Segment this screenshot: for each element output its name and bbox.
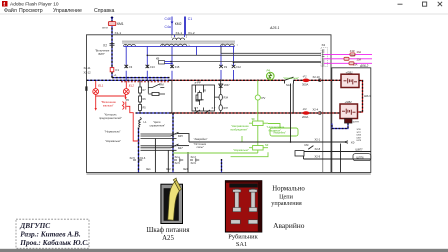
bracket wires [155, 134, 189, 173]
svg-text:F1: F1 [116, 68, 120, 72]
svg-text:Ш6П7: Ш6П7 [356, 147, 364, 151]
svg-text:Зм1: Зм1 [146, 168, 151, 171]
svg-text:А25: А25 [162, 235, 174, 242]
svg-text:PV: PV [262, 96, 266, 100]
svg-text:Рубильник: Рубильник [228, 234, 258, 241]
bottom gray bar [0, 249, 448, 252]
svg-text:SF: SF [252, 117, 256, 121]
svg-text:F13: F13 [150, 65, 155, 69]
fuse F1 on bus1 [303, 79, 310, 83]
svg-text:Пров.: Кабалык Ю.С.: Пров.: Кабалык Ю.С. [19, 238, 89, 247]
svg-text:Х2-8: Х2-8 [315, 147, 321, 151]
magenta output wires [324, 54, 372, 63]
svg-text:Б47: Б47 [178, 146, 183, 150]
green switch SF1 [249, 121, 268, 126]
RR relay box [192, 85, 221, 111]
bottom connector pins [133, 158, 199, 162]
bus1 dark red dashed right [170, 79, 285, 81]
fuse-link symbols row [124, 65, 235, 68]
inner partition line near connector [322, 50, 324, 173]
svg-text:SA1: SA1 [236, 241, 247, 248]
svg-text:А25.1: А25.1 [269, 26, 279, 30]
svg-text:Х2-5: Х2-5 [130, 157, 136, 160]
primary winding [174, 35, 176, 37]
KM dashed blue feed at left [102, 17, 170, 78]
svg-text:"Нормально": "Нормально" [283, 76, 299, 80]
red link with arrows [96, 94, 126, 108]
svg-text:Х2-а: Х2-а [175, 156, 181, 159]
fuse KM1 [108, 22, 115, 26]
svg-text:Б45: Б45 [178, 134, 183, 138]
short blue dashed pin drop [221, 159, 223, 173]
svg-text:С1: С1 [188, 17, 192, 21]
rubilnik icon [225, 181, 261, 232]
svg-text:"Цепи: "Цепи [153, 120, 161, 124]
svg-text:Х1-2: Х1-2 [188, 31, 195, 35]
svg-text:Х2-6: Х2-6 [140, 157, 146, 160]
secondary winding group1 [124, 44, 136, 46]
svg-text:С4а: С4а [165, 25, 171, 29]
bottom-right wires [189, 141, 371, 173]
contact stack B47 [141, 144, 179, 150]
svg-text:КМ: КМ [160, 83, 165, 87]
svg-text:"Нормально": "Нормально" [233, 148, 249, 152]
svg-text:EL2: EL2 [129, 84, 135, 88]
svg-text:L1: L1 [144, 120, 147, 124]
svg-text:Х0: Х0 [351, 140, 355, 144]
svg-text:КМ2: КМ2 [175, 22, 182, 26]
svg-text:предохранителей": предохранителей" [99, 116, 122, 120]
black vertical bus1-bus2 [171, 80, 173, 113]
red wire going down right [126, 106, 139, 141]
middle resistor column [139, 87, 142, 111]
SA1 knife switch on bus1 [285, 77, 294, 83]
svg-text:Шкаф питания: Шкаф питания [147, 227, 190, 234]
svg-text:Х2-9: Х2-9 [191, 162, 197, 165]
wire C1 blue feed above box [185, 17, 192, 35]
svg-text:Файл: Файл [4, 7, 17, 14]
svg-text:23А: 23А [357, 51, 362, 54]
svg-text:23А: 23А [351, 54, 356, 57]
svg-text:-F1: -F1 [303, 74, 308, 78]
svg-text:Х1: Х1 [102, 43, 107, 47]
svg-text:23А: 23А [353, 64, 358, 67]
svg-text:КВ: КВ [156, 57, 160, 61]
svg-text:Х1-1: Х1-1 [176, 31, 183, 35]
connector X2 dashed block [321, 48, 328, 67]
blue tap rail under windings [124, 46, 235, 80]
svg-text:Аварийно: Аварийно [273, 221, 305, 230]
connector block on left edge [85, 86, 87, 90]
svg-text:Зм2: Зм2 [166, 168, 171, 171]
close button [438, 2, 442, 6]
svg-text:200А: 200А [302, 115, 308, 119]
svg-text:ВИП": ВИП" [99, 52, 105, 56]
svg-text:Х2-4: Х2-4 [313, 108, 319, 112]
bottom shadow line [87, 173, 371, 175]
svg-text:"Аварийно": "Аварийно" [273, 131, 287, 135]
svg-text:"Нормально": "Нормально" [105, 130, 121, 134]
transformer T1 [122, 35, 239, 47]
svg-text:управления": управления" [150, 124, 166, 128]
svg-text:Зм3: Зм3 [183, 168, 188, 171]
svg-text:Управление: Управление [53, 8, 82, 14]
svg-text:Adobe Flash Player 10: Adobe Flash Player 10 [10, 1, 59, 7]
blue dashed hook from shunt [332, 123, 348, 128]
svg-text:"Контроль: "Контроль [104, 112, 117, 116]
svg-text:Х.Т: Х.Т [212, 107, 216, 110]
svg-text:возбуждения": возбуждения" [231, 128, 248, 132]
svg-text:"Нормально": "Нормально" [105, 139, 121, 143]
svg-text:Справка: Справка [94, 8, 114, 14]
maximize button [423, 2, 427, 6]
green measuring circuit [173, 80, 298, 156]
right enclosure A06 [332, 68, 371, 173]
svg-text:АБ: АБ [267, 77, 271, 80]
black output lines to connector X2 [147, 46, 321, 62]
lower blue dashed verticals [138, 128, 140, 173]
svg-text:"Включение: "Включение [101, 100, 116, 104]
svg-text:жалюзи": жалюзи" [103, 104, 114, 108]
green source P4 [267, 69, 275, 81]
svg-text:23А: 23А [357, 58, 362, 61]
svg-text:300А: 300А [302, 82, 308, 86]
svg-text:VD37: VD37 [224, 84, 231, 87]
window title bar [0, 1, 448, 14]
svg-text:F15: F15 [175, 65, 180, 69]
svg-text:А06.2: А06.2 [359, 64, 369, 68]
svg-text:"Аварийно": "Аварийно" [194, 137, 208, 141]
svg-text:Р4: Р4 [267, 69, 271, 73]
svg-text:силы": силы" [197, 145, 204, 149]
svg-text:Нормально: Нормально [272, 185, 305, 192]
svg-text:Х2-5: Х2-5 [175, 162, 181, 165]
svg-text:F12: F12 [236, 65, 241, 69]
svg-text:-F1: -F1 [303, 107, 308, 111]
bus1 blue dashed left [87, 79, 170, 81]
green switch SF2 [249, 146, 268, 151]
diode VD37 and resistors column [219, 80, 223, 113]
svg-text:Просмотр: Просмотр [19, 8, 43, 14]
svg-text:R37: R37 [224, 107, 229, 110]
switch X1 on left feed [110, 44, 115, 49]
flash player icon [2, 1, 8, 7]
group2 [161, 44, 187, 46]
X5 red relay [123, 102, 126, 110]
svg-text:С4б: С4б [165, 17, 171, 21]
svg-text:автм: автм [102, 27, 108, 30]
main cabinet box A25.1 [87, 35, 332, 173]
svg-text:Х5: Х5 [126, 98, 130, 102]
svg-text:+GB2: +GB2 [345, 100, 353, 104]
fuses on magenta wires [350, 53, 355, 56]
svg-text:А06.3: А06.3 [364, 95, 371, 98]
svg-text:EL1: EL1 [98, 84, 104, 88]
black verticals from SA1 down [291, 84, 294, 143]
svg-text:Х2-3: Х2-3 [191, 156, 197, 159]
KM contact and resistor [148, 80, 165, 95]
svg-text:Х2-1: Х2-1 [315, 138, 321, 142]
small label box right of green section [295, 151, 304, 156]
svg-text:Ш7П6: Ш7П6 [357, 156, 365, 160]
bus1 dark red dashed lower strand [121, 81, 170, 83]
svg-text:КМ1: КМ1 [117, 22, 124, 26]
svg-text:Х2-9: Х2-9 [315, 154, 321, 158]
bus2 [136, 112, 170, 114]
svg-text:Х2-10: Х2-10 [313, 75, 321, 79]
svg-text:+GB1: +GB1 [346, 70, 354, 74]
KV relay box [159, 61, 165, 65]
fuse F1 on left feed [110, 68, 114, 72]
svg-text:Х1-1: Х1-1 [115, 31, 122, 35]
svg-text:а-РР: а-РР [195, 81, 201, 85]
shunt under GB2 [345, 119, 353, 124]
battery GB1 [341, 70, 359, 87]
fuse F1 on bus2 [303, 111, 310, 115]
svg-text:Х2: Х2 [322, 43, 326, 47]
inductor L1 [139, 118, 142, 128]
wire C46 blue feed above box [165, 17, 182, 35]
red dashed GB1-GB2 link [358, 81, 363, 113]
svg-text:Х2-11: Х2-11 [84, 66, 91, 70]
svg-text:Х2-12: Х2-12 [84, 71, 92, 75]
battery GB2 [340, 100, 358, 118]
svg-text:F10: F10 [350, 49, 355, 53]
shkaf pitaniya icon [161, 178, 183, 223]
title block DVGUPS [16, 219, 89, 248]
svg-text:управления: управления [271, 200, 302, 207]
svg-text:"Направление: "Направление [267, 125, 285, 129]
red lamp EL2 [123, 81, 129, 94]
elbow to right at bottom [112, 77, 170, 79]
group3 [221, 44, 235, 46]
svg-text:ШУНТ: ШУНТ [353, 122, 360, 124]
contact stack B45 [141, 132, 179, 138]
svg-text:R34: R34 [224, 96, 229, 99]
svg-text:"Направление: "Направление [231, 124, 249, 128]
minimize button [398, 3, 403, 5]
svg-text:SF: SF [265, 143, 269, 147]
core [122, 40, 235, 42]
XT contacts on bus2 [195, 110, 210, 113]
svg-text:Х.Т: Х.Т [194, 107, 198, 110]
red lamp EL1 [93, 81, 99, 94]
